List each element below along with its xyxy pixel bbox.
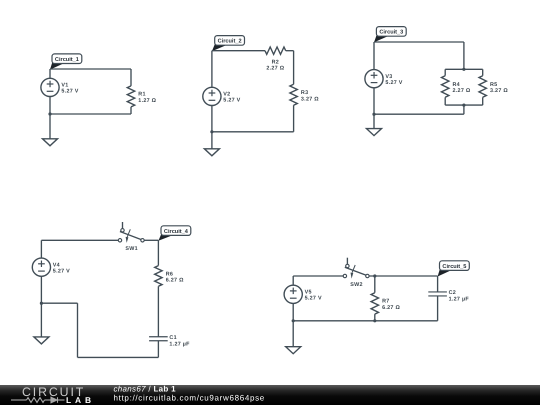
svg-text:1.27 µF: 1.27 µF: [449, 296, 470, 302]
svg-text:Circuit_1: Circuit_1: [55, 56, 79, 63]
svg-text:1.27 µF: 1.27 µF: [169, 341, 190, 347]
junction: V1- / ground: [48, 112, 51, 115]
junction: V5- / ground: [292, 319, 295, 322]
svg-text:3.27 Ω: 3.27 Ω: [301, 96, 319, 102]
svg-text:chans67 / Lab 1: chans67 / Lab 1: [114, 385, 177, 394]
junction: R4/R5 bottom: [462, 104, 465, 107]
junction: R7 top: [373, 274, 376, 277]
wire: net1 top: [50, 68, 131, 70]
ground (circuit 2): [204, 149, 219, 156]
svg-text:R4: R4: [453, 82, 460, 88]
wire: SW1 to corner: [144, 239, 158, 241]
wire: net2 top right: [286, 50, 294, 52]
junction: V4- / ground: [40, 302, 43, 305]
wire: V2 bottom lead: [211, 106, 213, 132]
svg-text:5.27 V: 5.27 V: [385, 80, 402, 86]
wire: V4 bottom lead: [40, 276, 42, 303]
wire: C1 bottom lead: [157, 341, 159, 358]
wire: ground stem 5: [292, 321, 294, 347]
ground (circuit 3): [367, 129, 382, 136]
wire: R1 top lead: [130, 69, 132, 86]
svg-text:LAB: LAB: [66, 395, 95, 405]
wire: R3 top lead: [293, 51, 295, 85]
resistor R2 2.27 Ω: [265, 47, 286, 72]
wire: net5 bottom: [293, 320, 437, 322]
wire: V5 to SW2: [293, 275, 343, 277]
logo mini-circuit: wire, resistor, diode: [11, 397, 65, 403]
wire: net4 left riser: [77, 303, 79, 357]
junction: V2- / ground: [210, 130, 213, 133]
wire: R6 to C1: [157, 286, 159, 336]
svg-text:6.27 Ω: 6.27 Ω: [166, 277, 184, 283]
svg-text:6.27 Ω: 6.27 Ω: [382, 305, 400, 311]
svg-text:5.27 V: 5.27 V: [223, 98, 240, 104]
wire: net2 top left: [212, 50, 265, 52]
svg-text:R6: R6: [166, 271, 173, 277]
junction: R7 bottom: [373, 319, 376, 322]
wire: parallel top bar: [445, 68, 483, 70]
svg-text:Circuit_3: Circuit_3: [379, 29, 403, 36]
wire: to V4-: [41, 302, 77, 304]
wire: V3 top lead: [373, 42, 375, 70]
wire: V3 bottom lead: [373, 88, 375, 114]
wire: C2 bottom lead: [437, 296, 439, 321]
wire: V5 top lead: [292, 276, 294, 285]
junction: R4/R5 top: [462, 68, 465, 71]
label callout Circuit_2: [212, 36, 245, 52]
ground (circuit 1): [43, 139, 58, 146]
wire: ground stem 1: [49, 114, 51, 139]
resistor R7 6.27 Ω: [371, 293, 400, 314]
wire: R1 bottom lead: [130, 107, 132, 114]
wire: V4 to SW1: [41, 239, 118, 241]
svg-text:5.27 V: 5.27 V: [53, 269, 70, 275]
wire: R5 top lead: [482, 69, 484, 75]
svg-text:3.27 Ω: 3.27 Ω: [490, 88, 508, 94]
resistor R5 3.27 Ω: [479, 76, 508, 98]
wire: R7 bottom lead: [374, 314, 376, 321]
footer bar: [0, 385, 540, 405]
label callout Circuit_5: [438, 261, 470, 277]
wire: SW2 to C2 corner: [369, 275, 438, 277]
voltage source V2 5.27 V: [203, 87, 241, 105]
switch SW2: [343, 258, 369, 288]
wire: V1 bottom lead: [49, 97, 51, 115]
wire: R7 top lead: [374, 276, 376, 293]
svg-text:R2: R2: [272, 60, 279, 66]
wire: net3 bottom: [374, 113, 464, 115]
svg-text:2.27 Ω: 2.27 Ω: [453, 88, 471, 94]
svg-text:R7: R7: [382, 299, 389, 305]
wire: net4 bottom: [78, 356, 159, 358]
capacitor C2 1.27 µF: [428, 290, 469, 302]
svg-text:SW2: SW2: [350, 282, 363, 288]
wire: C2 top lead: [437, 276, 439, 292]
wire: net1 bottom: [50, 113, 131, 115]
svg-text:5.27 V: 5.27 V: [305, 296, 322, 302]
switch SW1: [118, 222, 144, 252]
svg-text:R5: R5: [490, 82, 497, 88]
wire: V2 top lead: [211, 51, 213, 88]
wire: ground stem 4: [40, 303, 42, 337]
resistor R4 2.27 Ω: [442, 76, 471, 98]
CircuitLab logo wordmark: [22, 385, 95, 405]
resistor R6 6.27 Ω: [155, 266, 184, 287]
ground (circuit 4): [34, 337, 49, 344]
svg-text:2.27 Ω: 2.27 Ω: [266, 66, 284, 72]
svg-text:Circuit_4: Circuit_4: [164, 228, 189, 235]
wire: R4 bottom lead: [444, 97, 446, 105]
wire: V5 bottom lead: [292, 303, 294, 320]
capacitor C1 1.27 µF: [149, 335, 190, 347]
svg-text:C2: C2: [449, 290, 456, 296]
wire: R5 bottom lead: [482, 97, 484, 105]
wire: ground stem 3: [373, 114, 375, 128]
voltage source V4 5.27 V: [32, 258, 70, 276]
wire: ground stem 2: [211, 132, 213, 149]
label callout Circuit_3: [374, 27, 406, 43]
wire: R4 top lead: [444, 69, 446, 75]
svg-text:5.27 V: 5.27 V: [61, 89, 78, 95]
wire: parallel bottom bar: [445, 104, 483, 106]
junction: V3- / ground: [372, 113, 375, 116]
label callout Circuit_4: [158, 226, 190, 241]
wire: V4 top lead: [40, 240, 42, 258]
wire: R6 top lead: [157, 240, 159, 265]
resistor R3 3.27 Ω: [290, 84, 319, 105]
wire: V1 top lead: [49, 69, 51, 78]
wire: net2 bottom: [212, 131, 294, 133]
voltage source V1 5.27 V: [41, 78, 79, 96]
svg-text:R3: R3: [301, 90, 308, 96]
wire: feed to parallel pair: [463, 42, 465, 69]
wire: R3 bottom lead: [293, 105, 295, 132]
voltage source V3 5.27 V: [365, 70, 403, 88]
voltage source V5 5.27 V: [284, 285, 322, 303]
svg-text:Circuit_2: Circuit_2: [218, 38, 242, 45]
svg-text:http://circuitlab.com/cu9arw68: http://circuitlab.com/cu9arw6864pse: [114, 393, 265, 402]
ground (circuit 5): [286, 347, 301, 354]
svg-text:C1: C1: [169, 335, 176, 341]
svg-text:1.27 Ω: 1.27 Ω: [138, 98, 156, 104]
resistor R1 1.27 Ω: [127, 86, 156, 107]
svg-text:R1: R1: [138, 92, 145, 98]
svg-text:SW1: SW1: [125, 246, 138, 252]
wire: net3 top: [374, 41, 464, 43]
wire: down from parallel pair: [463, 105, 465, 114]
svg-text:Circuit_5: Circuit_5: [442, 263, 466, 270]
label callout Circuit_1: [50, 54, 82, 70]
